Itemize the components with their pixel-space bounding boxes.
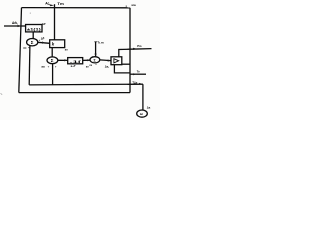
- wire down to sensor circle: [142, 84, 144, 110]
- svg-text:ΔP: ΔP: [42, 22, 46, 26]
- arrowhead Ac: [49, 4, 54, 6]
- arrowhead TL into S3: [95, 54, 97, 57]
- wire Pm output external: [130, 48, 152, 51]
- arrowhead into B4: [108, 60, 111, 62]
- svg-text:a+T: a+T: [71, 64, 76, 68]
- wire input arrow left: [4, 25, 26, 27]
- tick at TL top: [94, 41, 97, 43]
- wire B3 to sum S3: [83, 59, 91, 61]
- wire top input into B2: [54, 4, 56, 40]
- svg-text:Δw̄,: Δw̄,: [12, 21, 18, 25]
- wire S2 to B3: [58, 59, 68, 61]
- tick on top border: [126, 5, 127, 7]
- arrowhead Te: [133, 73, 137, 75]
- svg-text:TΔe: TΔe: [132, 80, 137, 84]
- box B3 turbine: [68, 58, 83, 64]
- wire B4 bottom out: [114, 65, 130, 73]
- tick below S1: [28, 47, 30, 49]
- svg-text:Tm: Tm: [57, 2, 64, 6]
- svg-text:±1(1): ±1(1): [27, 27, 42, 32]
- summing junction S1: [27, 39, 38, 46]
- wire load input TL down into S3: [95, 42, 97, 57]
- summing junction S2: [47, 57, 58, 64]
- sensor circle: [137, 110, 148, 117]
- enclosure border bottom: [19, 92, 130, 94]
- enclosure border right: [129, 8, 131, 93]
- svg-text:ω: ω: [140, 112, 143, 116]
- svg-text:Ac̲: Ac̲: [45, 1, 49, 5]
- svg-text:Σ: Σ: [31, 40, 34, 45]
- wire B2 to sum S2: [51, 48, 53, 57]
- arrowhead on feedback near corner: [139, 83, 142, 85]
- wire feedback up into S1: [28, 46, 31, 85]
- svg-text:an: an: [65, 48, 68, 51]
- wire Te output external: [130, 73, 146, 75]
- wire B4 right out: [122, 63, 130, 65]
- arrowhead S1 out: [42, 42, 45, 44]
- wire B1 to sum S1: [32, 32, 34, 39]
- svg-text:Σ: Σ: [51, 58, 54, 63]
- box B2 governor: [50, 40, 65, 48]
- minus sign at S1 feedback: [23, 47, 26, 49]
- wire feedback up into S2: [52, 64, 54, 85]
- svg-text:Pm: Pm: [137, 44, 142, 48]
- speck bottom left edge: [1, 94, 3, 95]
- enclosure border left: [19, 8, 22, 93]
- arrowhead input: [18, 25, 22, 27]
- svg-text:ww: ww: [130, 3, 136, 7]
- svg-text:Δa: Δa: [147, 106, 151, 110]
- svg-text:ΔP̄: ΔP̄: [41, 36, 45, 40]
- box B4 inertia: [111, 57, 122, 65]
- wire B4 top out to right: [119, 49, 130, 57]
- svg-text:Tʟm: Tʟm: [97, 41, 104, 45]
- arrowhead into B3: [64, 59, 67, 61]
- wire feedback horizontal across bottom: [29, 83, 143, 86]
- enclosure border top: [22, 7, 131, 9]
- box B1 deadband: [26, 25, 42, 32]
- value glyph in B4: [114, 59, 119, 63]
- summing junction S3: [90, 57, 100, 63]
- arrowhead into S3: [87, 59, 90, 61]
- svg-text:aa: aa: [41, 65, 45, 69]
- svg-text:Δa,: Δa,: [105, 65, 110, 69]
- arrowhead Pm: [133, 48, 137, 50]
- wire S1 to B2: [38, 42, 50, 43]
- wire S3 to B4: [100, 59, 111, 62]
